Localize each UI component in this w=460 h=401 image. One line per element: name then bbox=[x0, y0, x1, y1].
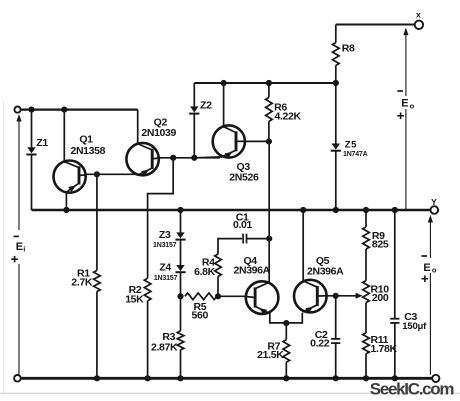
resistor R3 bbox=[177, 296, 184, 378]
label 0.22 bbox=[310, 337, 330, 349]
svg-text:E: E bbox=[16, 241, 23, 253]
svg-text:2N526: 2N526 bbox=[229, 172, 259, 184]
capacitor C3 bbox=[390, 210, 399, 378]
wire: step to R2 bbox=[148, 158, 174, 278]
wire: Q5 collector riser bbox=[302, 210, 304, 282]
label R9 bbox=[372, 230, 385, 242]
node Z5 bottom bbox=[333, 207, 339, 213]
label Z4 bbox=[159, 261, 171, 273]
label C3 bbox=[404, 311, 417, 323]
svg-text:825: 825 bbox=[372, 239, 389, 251]
zener Z5 bbox=[331, 83, 341, 210]
transistor Q5 bbox=[294, 280, 327, 313]
page edge line (left) bbox=[3, 100, 5, 396]
svg-text:2.87K: 2.87K bbox=[151, 342, 178, 354]
transistor Q3 bbox=[213, 125, 245, 158]
svg-text:i: i bbox=[23, 245, 25, 254]
label Q4 bbox=[243, 255, 257, 267]
label 0.01 bbox=[233, 219, 253, 231]
svg-text:Z4: Z4 bbox=[159, 261, 171, 273]
label 21.5K bbox=[257, 349, 284, 361]
node Z4 / R5 bbox=[177, 293, 183, 299]
svg-text:6.8K: 6.8K bbox=[194, 266, 216, 278]
svg-text:150μf: 150μf bbox=[402, 321, 427, 332]
svg-text:2N1039: 2N1039 bbox=[141, 127, 176, 139]
svg-text:Z5: Z5 bbox=[345, 140, 357, 151]
resistor R1 bbox=[94, 174, 101, 378]
resistor R2 bbox=[144, 278, 151, 378]
node R9 top bbox=[363, 207, 369, 213]
svg-text:Z1: Z1 bbox=[36, 137, 48, 149]
svg-text:E: E bbox=[401, 98, 408, 110]
wire: Q1 base / Q2 emitter bbox=[85, 173, 139, 175]
label R2 bbox=[129, 284, 142, 296]
svg-text:o: o bbox=[432, 266, 437, 275]
label plus (Eo upper) bbox=[397, 113, 404, 120]
terminal X bbox=[415, 21, 423, 29]
svg-text:SeekIC.com: SeekIC.com bbox=[370, 380, 455, 399]
capacitor C1 bbox=[243, 234, 269, 244]
svg-text:2N396A: 2N396A bbox=[307, 265, 344, 277]
node Q3 collector top bbox=[221, 80, 227, 86]
transistor Q2 bbox=[126, 143, 158, 176]
label 1.78K bbox=[371, 343, 398, 355]
zener Z2 bbox=[189, 83, 199, 158]
terminal input bottom bbox=[14, 375, 21, 382]
svg-text:x: x bbox=[416, 9, 421, 19]
wire: Q3 collector riser bbox=[223, 83, 225, 128]
node Q5 base / C2 bbox=[333, 293, 339, 299]
label R3 bbox=[162, 331, 175, 343]
wire: top-left bus bbox=[21, 108, 138, 110]
wire: Q3 base wire bbox=[245, 140, 269, 142]
node R7 bottom bbox=[283, 375, 289, 381]
page edge line (bottom) bbox=[0, 392, 460, 394]
svg-text:2N396A: 2N396A bbox=[233, 265, 270, 277]
svg-text:2.7K: 2.7K bbox=[71, 277, 93, 289]
label 2N1039 bbox=[141, 127, 176, 139]
watermark SeekIC.com bbox=[370, 380, 455, 399]
label 6.8K bbox=[194, 266, 216, 278]
wire: Q3 emitter lead bbox=[194, 157, 222, 158]
label Q3 bbox=[237, 161, 251, 173]
terminal Y bbox=[431, 206, 439, 214]
svg-text:Q1: Q1 bbox=[79, 134, 93, 146]
node R2 bottom bbox=[145, 375, 151, 381]
resistor R6 bbox=[266, 83, 273, 141]
label minus (Ei) bbox=[11, 230, 23, 264]
svg-text:Z2: Z2 bbox=[200, 100, 212, 112]
label C1 bbox=[236, 211, 249, 223]
label Z3 bbox=[159, 229, 171, 241]
wire: emitter join bbox=[270, 313, 303, 323]
label R1 bbox=[77, 267, 90, 279]
wire: Q2 collector riser bbox=[137, 110, 139, 145]
node C2 bottom bbox=[333, 375, 339, 381]
zener Z3 bbox=[175, 210, 185, 265]
label 1N747A bbox=[343, 151, 368, 158]
svg-text:R8: R8 bbox=[342, 42, 355, 54]
resistor R8 bbox=[333, 25, 340, 84]
label X bbox=[416, 9, 421, 19]
wire: X rail top bbox=[336, 24, 415, 26]
terminal input top bbox=[14, 107, 20, 113]
label plus (Ei) bbox=[11, 256, 18, 263]
label R6 bbox=[274, 102, 287, 114]
node emitters bbox=[283, 320, 289, 326]
wire: Q1 emitter drop bbox=[65, 191, 67, 210]
node R8/Z5 bbox=[333, 80, 339, 86]
label 4.22K bbox=[275, 111, 302, 123]
label R11 bbox=[371, 334, 389, 346]
node C3 top bbox=[392, 207, 398, 213]
label R8 bbox=[342, 42, 355, 54]
node Z2 bottom bbox=[191, 155, 197, 161]
label 825 bbox=[372, 239, 389, 251]
label R4 bbox=[202, 257, 215, 269]
wire: main bus (Y rail) bbox=[32, 209, 431, 212]
svg-text:Z3: Z3 bbox=[159, 229, 171, 241]
svg-text:1N747A: 1N747A bbox=[343, 151, 368, 158]
label 2N396A (Q4) bbox=[233, 265, 270, 277]
svg-text:1N3157: 1N3157 bbox=[153, 242, 177, 249]
resistor R9 bbox=[363, 210, 370, 281]
label Z1 bbox=[36, 137, 48, 149]
node Z1 top bbox=[28, 107, 34, 113]
wiper arrow R10 bbox=[356, 293, 363, 299]
label 2.7K bbox=[71, 277, 93, 289]
wire: upper bus bbox=[194, 82, 335, 84]
node Z3 top bbox=[177, 207, 183, 213]
label minus (Eo upper) bbox=[397, 90, 403, 92]
measure arrow Eo lower bbox=[428, 215, 433, 375]
resistor R7 bbox=[283, 323, 290, 378]
node Q3 base / R6 bbox=[266, 138, 272, 144]
svg-text:2N1358: 2N1358 bbox=[70, 145, 105, 157]
node R1 bottom bbox=[94, 375, 100, 381]
zener Z1 bbox=[26, 110, 36, 210]
label Z2 bbox=[200, 100, 212, 112]
svg-text:200: 200 bbox=[372, 292, 389, 304]
measure arrow Eo upper bbox=[403, 28, 408, 210]
wire: bottom rail bbox=[21, 377, 433, 380]
terminal output bottom bbox=[432, 375, 439, 382]
node R6 top bbox=[266, 80, 272, 86]
label R10 bbox=[371, 284, 390, 296]
node R5 / R4 bbox=[215, 293, 221, 299]
svg-text:Y: Y bbox=[431, 197, 437, 207]
node C3 bottom bbox=[392, 375, 398, 381]
resistor R4 bbox=[215, 239, 242, 297]
label Eo lower bbox=[423, 262, 437, 275]
zener Z4 bbox=[175, 265, 185, 296]
node Q1 base bbox=[94, 171, 100, 177]
label Q2 bbox=[154, 117, 168, 129]
label 2N1358 bbox=[70, 145, 105, 157]
wire: Q5 base to wiper bbox=[327, 295, 357, 297]
label Z5 bbox=[345, 140, 357, 151]
label 150uf bbox=[402, 321, 427, 332]
transistor Q4 bbox=[246, 281, 279, 314]
svg-text:21.5K: 21.5K bbox=[257, 349, 284, 361]
measure arrow Ei bbox=[16, 114, 21, 378]
label 2.87K bbox=[151, 342, 178, 354]
node Q5 collector bbox=[300, 207, 306, 213]
svg-text:o: o bbox=[410, 101, 415, 110]
white backing Eo lower bbox=[422, 258, 439, 273]
label minus (Eo lower) bbox=[422, 255, 428, 257]
label 15K bbox=[125, 294, 144, 306]
label C2 bbox=[315, 329, 328, 341]
resistor R5 bbox=[185, 293, 217, 300]
svg-text:4.22K: 4.22K bbox=[275, 111, 302, 123]
label R5 bbox=[194, 301, 207, 313]
svg-text:1N3157: 1N3157 bbox=[154, 275, 178, 282]
transistor Q1 bbox=[54, 161, 86, 193]
label 1N3157 (Z4) bbox=[154, 275, 178, 282]
label Y bbox=[431, 197, 437, 207]
label Ei bbox=[16, 241, 26, 254]
label plus (Eo lower) bbox=[422, 275, 429, 282]
svg-text:0.01: 0.01 bbox=[233, 219, 253, 231]
wire: R6 node to Q4 collector bbox=[268, 141, 270, 282]
label 560 bbox=[192, 309, 209, 321]
capacitor C2 bbox=[331, 296, 340, 379]
svg-text:1.78K: 1.78K bbox=[371, 343, 398, 355]
node R11 bottom bbox=[363, 375, 369, 381]
label R7 bbox=[267, 340, 280, 352]
svg-text:0.22: 0.22 bbox=[310, 337, 330, 349]
label 200 bbox=[372, 292, 389, 304]
label 2N526 bbox=[229, 172, 259, 184]
label Q1 bbox=[79, 134, 93, 146]
wire: Q2 base bus bbox=[159, 157, 220, 159]
label 2N396A (Q5) bbox=[307, 265, 344, 277]
potentiometer R10 bbox=[363, 281, 370, 333]
label Q5 bbox=[316, 255, 330, 267]
node C1 / Q4 collector bbox=[266, 236, 272, 242]
wire: R5 node to Q4 base bbox=[218, 295, 246, 297]
node Q2 base / R2 bbox=[170, 155, 176, 161]
resistor R11 bbox=[363, 333, 370, 379]
label 1N3157 (Z3) bbox=[153, 242, 177, 249]
svg-text:15K: 15K bbox=[125, 294, 144, 306]
node Q1 collector bbox=[61, 107, 67, 113]
node R3 bottom bbox=[177, 375, 183, 381]
node Q1 emitter bbox=[63, 207, 69, 213]
svg-text:E: E bbox=[423, 262, 430, 274]
white backing Eo upper bbox=[400, 96, 414, 109]
wire: Q1 collector riser bbox=[63, 110, 65, 163]
label Eo upper bbox=[401, 98, 414, 111]
svg-text:560: 560 bbox=[192, 309, 209, 321]
